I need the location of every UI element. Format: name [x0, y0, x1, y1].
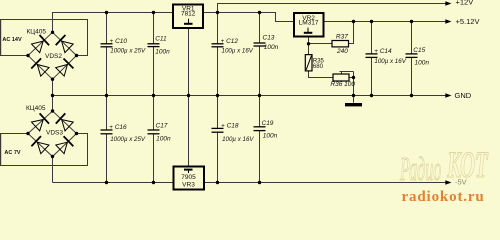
capacitor C19 100n — [254, 120, 278, 140]
svg-text:КЦ405: КЦ405 — [26, 105, 46, 112]
ground symbol — [345, 103, 362, 106]
svg-text:100µ x 16V: 100µ x 16V — [374, 58, 406, 65]
svg-text:AC 7V: AC 7V — [4, 150, 21, 156]
diode D3 (bottom-left) of bridge VDS2 — [31, 58, 49, 76]
svg-text:VDS3: VDS3 — [46, 130, 63, 137]
wire VR1 ground pin to VR3 ground pin — [188, 28, 190, 167]
node +12V output arrow — [445, 0, 473, 7]
wire C11/C17 vertical branch — [153, 13, 155, 183]
svg-text:100n: 100n — [263, 132, 278, 139]
wire VDS3 minus output down to -5V rail — [52, 157, 54, 183]
resistor R35 680 (adjustable) — [305, 55, 324, 71]
voltage regulator VR1 7812 — [173, 5, 203, 29]
svg-text:C15: C15 — [413, 47, 425, 54]
wire GND rail — [53, 95, 447, 97]
wire R36 wiper tie — [340, 72, 354, 74]
svg-text:Радио: Радио — [399, 149, 441, 187]
wire AC input upper terminal 1 (to right vertex of VDS2) — [0, 20, 88, 56]
svg-text:VR3: VR3 — [182, 182, 195, 189]
voltage regulator VR2 LM317 — [294, 13, 324, 37]
svg-text:R37: R37 — [336, 34, 348, 41]
wire C13/C19 vertical branch — [259, 13, 261, 183]
wire C10/C16 vertical branch — [106, 13, 108, 183]
svg-text:radiokot.ru: radiokot.ru — [402, 189, 485, 205]
svg-text:C11: C11 — [155, 36, 167, 43]
wire -5V bottom rail — [53, 182, 447, 184]
svg-text:1000µ x 25V: 1000µ x 25V — [110, 136, 146, 143]
node GND output arrow — [445, 91, 471, 100]
diode D8 (bottom-right) of bridge VDS3 — [56, 136, 74, 154]
wire R37 to +5.12V rail — [349, 22, 354, 44]
wire R35 to R36 — [309, 71, 334, 78]
wire adj node to R37 — [309, 43, 333, 45]
svg-text:7812: 7812 — [181, 10, 196, 17]
diode D7 (bottom-left) of bridge VDS3 — [31, 136, 49, 154]
svg-text:1000µ x 25V: 1000µ x 25V — [110, 47, 146, 54]
svg-text:КЦ405: КЦ405 — [27, 28, 47, 35]
svg-text:+ C10: + C10 — [110, 38, 128, 45]
svg-text:C17: C17 — [156, 123, 168, 130]
svg-text:GND: GND — [455, 91, 472, 100]
wire AC input lower terminal 2 (to right vertex of VDS3) — [0, 134, 88, 166]
svg-text:7905: 7905 — [181, 174, 196, 181]
wire VR2 adjust pin to adj node — [308, 37, 310, 44]
diode D2 (right-top) of bridge VDS2 — [56, 35, 73, 53]
wire R36 right terminal to ground symbol — [349, 72, 354, 103]
capacitor C17 100n — [148, 123, 171, 143]
wire C12/C18 vertical branch — [217, 13, 219, 183]
transformer secondary edge (AC 7V) — [0, 134, 2, 166]
capacitor C15 100n — [406, 47, 430, 67]
svg-text:100µ x 16V: 100µ x 16V — [222, 136, 254, 143]
bridge rectifier VDS2 outline — [28, 32, 77, 79]
svg-text:100n: 100n — [415, 60, 430, 67]
svg-text:100n: 100n — [264, 44, 279, 51]
wire adj node to R35 — [308, 44, 310, 55]
wire VR1 output to VR2 input — [203, 13, 294, 22]
wire C15 vertical branch — [411, 22, 413, 96]
svg-text:КОТ: КОТ — [446, 145, 489, 186]
svg-text:+ C18: + C18 — [221, 123, 239, 130]
voltage regulator VR3 7905 — [174, 167, 205, 190]
wire AC input lower terminal 1 (to left vertex of VDS3) — [0, 133, 28, 135]
node -5V output arrow — [445, 177, 466, 186]
diode D5 (left-top) of bridge VDS3 — [32, 113, 50, 130]
svg-text:+5.12V: +5.12V — [456, 17, 480, 26]
svg-text:AC 14V: AC 14V — [2, 37, 22, 43]
capacitor C13 100n — [254, 34, 279, 51]
svg-text:100µ x 16V: 100µ x 16V — [222, 47, 254, 54]
wire C14 vertical branch — [371, 22, 373, 96]
capacitor C11 100n — [148, 36, 171, 56]
svg-text:+ C14: + C14 — [374, 48, 392, 55]
bridge rectifier VDS3 outline — [28, 111, 77, 157]
capacitor C16 1000u x 25V — [101, 124, 146, 143]
svg-text:680: 680 — [313, 64, 324, 70]
svg-text:LM317: LM317 — [299, 20, 319, 27]
wire VDS2 minus output down to GND rail — [52, 79, 54, 95]
capacitor C12 100u x 16V — [212, 38, 254, 54]
svg-text:C19: C19 — [262, 120, 274, 127]
svg-text:R36 100: R36 100 — [330, 81, 355, 88]
node +5.12V output arrow — [445, 17, 479, 26]
diode D1 (left-top) of bridge VDS2 — [32, 35, 50, 53]
svg-text:+12V: +12V — [456, 0, 474, 7]
transformer secondary edge (AC 14V) — [0, 20, 2, 56]
svg-text:100n: 100n — [156, 135, 171, 142]
resistor R36 100 (trimmer) — [330, 74, 355, 88]
wire VDS2 plus output to VR1 input rail — [53, 13, 174, 33]
capacitor C14 100u x 16V — [366, 48, 407, 65]
wire VDS3 plus output up to GND rail — [52, 96, 54, 112]
wire +12V rail — [218, 4, 447, 13]
wire VR2 output +5.12V rail — [324, 21, 447, 23]
capacitor C18 100u x 16V — [212, 123, 255, 143]
wire AC input upper terminal 2 (to left vertex of VDS2) — [0, 55, 28, 57]
capacitor C10 1000u x 25V — [101, 38, 147, 55]
svg-text:240: 240 — [336, 48, 348, 55]
diode D4 (bottom-right) of bridge VDS2 — [56, 59, 74, 77]
resistor R37 240 — [332, 34, 349, 56]
svg-text:C13: C13 — [263, 34, 275, 41]
svg-text:+ C12: + C12 — [221, 38, 239, 45]
svg-text:100n: 100n — [155, 48, 170, 55]
svg-text:+ C16: + C16 — [109, 124, 127, 131]
diode D6 (right-top) of bridge VDS3 — [56, 113, 73, 130]
svg-text:VDS2: VDS2 — [45, 53, 62, 60]
